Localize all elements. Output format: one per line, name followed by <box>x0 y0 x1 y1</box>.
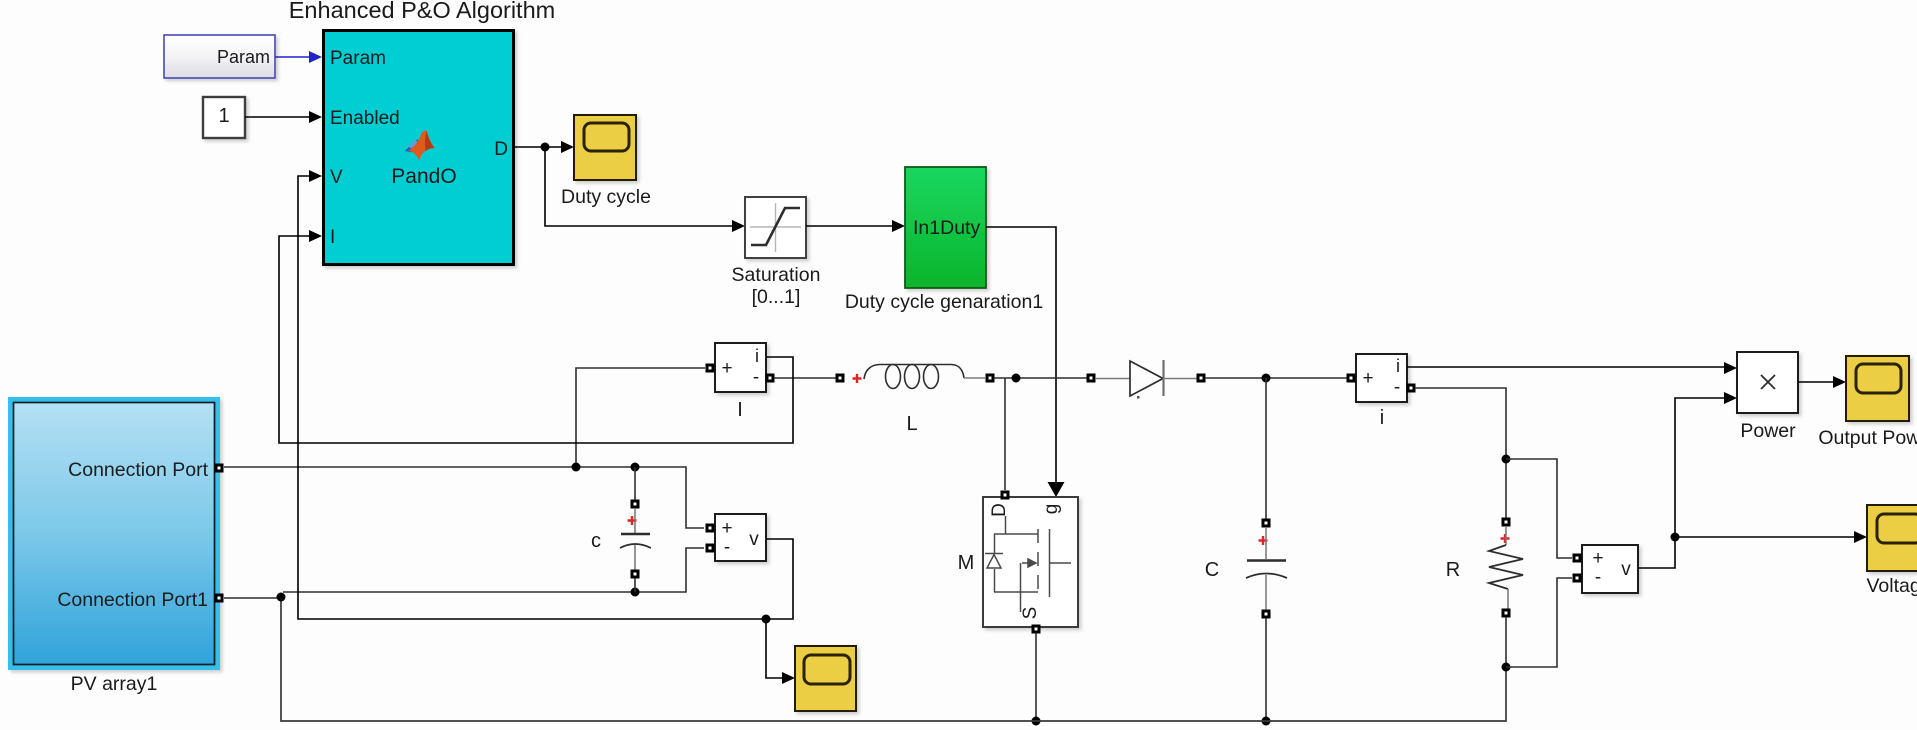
svg-text:M: M <box>958 552 975 574</box>
port square L right <box>986 374 995 383</box>
port square PV Connection Port1 <box>215 594 224 603</box>
svg-text:D: D <box>494 139 508 160</box>
from-tag Param <box>164 35 275 78</box>
wire PV plus bus <box>224 467 704 528</box>
svg-text:Voltage: Voltage <box>1866 575 1917 597</box>
port square C top <box>1262 519 1271 528</box>
capacitor C <box>1246 527 1287 610</box>
wire i output to Power input1 <box>1407 362 1737 374</box>
wire 1 to Enabled <box>245 111 322 123</box>
port square v-right minus <box>1573 574 1582 583</box>
svg-text:PandO: PandO <box>391 165 456 188</box>
wire branch to Voltage scope <box>1675 531 1867 543</box>
wire c top branch <box>634 467 636 500</box>
junction node M source on bus <box>1032 717 1041 726</box>
svg-text:V: V <box>330 167 343 188</box>
port square I plus <box>706 364 715 373</box>
svg-text:c: c <box>591 530 601 552</box>
polarity plus R (red) <box>1501 534 1510 543</box>
svg-text:Connection Port1: Connection Port1 <box>57 589 208 611</box>
junction node c bottom <box>631 588 640 597</box>
svg-text:-: - <box>753 367 759 388</box>
wire R top to v-right plus <box>1506 459 1572 558</box>
svg-text:[0...1]: [0...1] <box>752 286 801 308</box>
svg-text:I: I <box>330 227 335 248</box>
svg-text:Saturation: Saturation <box>732 264 821 286</box>
svg-text:-: - <box>1394 377 1400 398</box>
svg-text:C: C <box>1205 559 1219 581</box>
svg-text:L: L <box>906 413 917 435</box>
saturation block <box>745 197 806 258</box>
port square c top <box>631 500 640 509</box>
junction node R bottom <box>1502 663 1511 672</box>
svg-text:+: + <box>1362 368 1373 389</box>
matlab logo U1 <box>405 130 435 160</box>
svg-text:D: D <box>989 503 1010 517</box>
svg-text:v: v <box>749 529 759 550</box>
svg-text:Duty cycle genaration1: Duty cycle genaration1 <box>845 291 1043 313</box>
voltage sensor v (right) <box>1582 545 1638 593</box>
junction node at C top <box>1262 374 1271 383</box>
svg-text:+: + <box>1592 548 1603 569</box>
wire I i-output feedback to U1 I input <box>279 230 793 443</box>
junction node voltage scope branch <box>1671 533 1680 542</box>
wire bus to I plus <box>576 368 705 467</box>
svg-text:S: S <box>1020 607 1041 620</box>
wire Power to Output Power scope <box>1798 376 1846 388</box>
wire branch to scope <box>766 619 795 684</box>
port square diode left <box>1087 374 1096 383</box>
junction node bus to I sensor <box>572 463 581 472</box>
port square v-right plus <box>1573 554 1582 563</box>
wire i minus down to R <box>1415 388 1506 518</box>
wire C bottom to bus <box>1265 618 1267 721</box>
wire R bottom to v-right minus <box>1506 578 1572 667</box>
junction node PV minus <box>277 593 286 602</box>
constant block 1 <box>203 97 245 138</box>
scope Output Power <box>1846 356 1909 421</box>
wire v-left output feedback to U1 V input <box>298 170 793 619</box>
wire C top branch <box>1265 378 1267 519</box>
wire L to diode <box>994 377 1087 379</box>
port square M drain <box>1001 491 1010 500</box>
wire Saturation to Duty cycle generation <box>806 220 905 232</box>
wire D branch to Saturation <box>545 147 745 232</box>
subsystem U1 Enhanced P&O (PandO) <box>324 31 514 265</box>
voltage sensor v (left) <box>715 514 766 561</box>
svg-text:Param: Param <box>330 48 386 69</box>
wire I minus to L <box>774 377 837 379</box>
svg-text:Enabled: Enabled <box>330 108 400 129</box>
port square R top <box>1502 518 1511 527</box>
junction node R top <box>1502 455 1511 464</box>
pv array block PV array1 <box>8 397 220 670</box>
wire R bottom down <box>1505 617 1507 667</box>
svg-text:i: i <box>755 346 759 366</box>
svg-text:Power: Power <box>1740 420 1796 442</box>
svg-text:g: g <box>1041 504 1062 515</box>
port square i minus <box>1407 384 1416 393</box>
svg-text:i: i <box>1396 356 1400 376</box>
svg-text:PV array1: PV array1 <box>71 673 158 695</box>
wire PV minus bus <box>283 548 704 592</box>
wire v-right output to Power input2 <box>1638 392 1737 568</box>
wire Param to U1 (blue) <box>275 51 322 63</box>
scope Voltage <box>1867 505 1917 571</box>
svg-text:i: i <box>1380 407 1384 429</box>
port square L left <box>836 374 845 383</box>
svg-text:Output Power: Output Power <box>1818 427 1917 449</box>
wire c bottom <box>634 578 636 592</box>
svg-text:-: - <box>724 537 730 558</box>
current sensor i (right) <box>1356 354 1407 402</box>
svg-text:Duty cycle: Duty cycle <box>561 186 651 208</box>
mosfet icon internals <box>985 516 1071 612</box>
wire diode to i sensor <box>1205 377 1347 379</box>
bottom bus wire <box>281 597 1506 721</box>
junction node after L <box>1012 374 1021 383</box>
port square M source <box>1032 625 1041 634</box>
port square C bottom <box>1262 610 1271 619</box>
svg-text:Param: Param <box>217 47 270 67</box>
polarity plus C (red) <box>1259 536 1268 545</box>
port square v-left minus <box>706 544 715 553</box>
mosfet block M <box>983 497 1078 627</box>
junction node C on bus <box>1262 717 1271 726</box>
port square i plus <box>1347 374 1356 383</box>
polarity plus c (red) <box>628 516 637 525</box>
scope Duty cycle <box>574 115 636 180</box>
inductor L coil <box>864 365 985 389</box>
svg-text:v: v <box>1621 559 1631 580</box>
svg-text:-: - <box>1595 567 1601 588</box>
port square I minus <box>766 374 775 383</box>
svg-text:Connection Port: Connection Port <box>68 459 208 481</box>
capacitor c <box>620 508 651 570</box>
subsystem Duty cycle genaration1 <box>905 167 986 288</box>
wire D output with junction <box>514 141 574 153</box>
junction node bus to cap c <box>631 463 640 472</box>
svg-text:I: I <box>737 399 743 421</box>
port square R bottom <box>1502 609 1511 618</box>
svg-text:+: + <box>721 518 732 539</box>
scope (PV voltage, unnamed) <box>795 646 856 711</box>
polarity plus L (red) <box>853 374 862 383</box>
current sensor I (left) <box>715 343 766 392</box>
junction node scope branch <box>762 615 771 624</box>
port square diode right <box>1197 374 1206 383</box>
svg-text:R: R <box>1446 559 1460 581</box>
resistor R zigzag <box>1489 526 1523 610</box>
svg-text:+: + <box>721 358 732 379</box>
wire Duty to MOSFET gate <box>986 227 1065 497</box>
product block Power <box>1737 352 1798 413</box>
port square c bottom <box>631 570 640 579</box>
port square PV Connection Port <box>215 464 224 473</box>
port square v-left plus <box>706 524 715 533</box>
diode D1 <box>1095 360 1197 399</box>
wire PV minus to junction <box>224 597 278 599</box>
wire branch down to MOSFET drain <box>1004 378 1006 490</box>
svg-text:In1Duty: In1Duty <box>913 217 980 239</box>
svg-text:1: 1 <box>218 105 229 127</box>
wire M source to bottom bus <box>1035 633 1037 721</box>
svg-text:Enhanced P&O Algorithm: Enhanced P&O Algorithm <box>289 0 556 23</box>
